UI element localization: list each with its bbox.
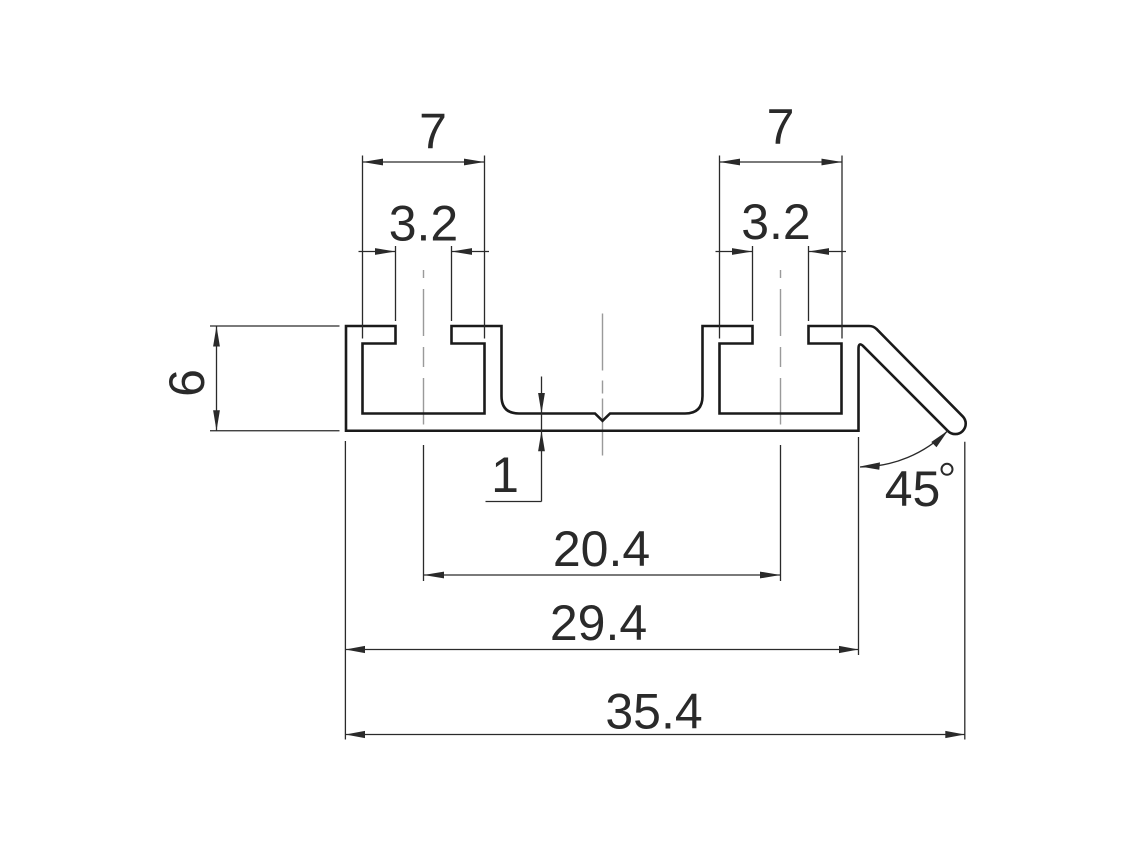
- dimension 35.4: arrow left: [345, 731, 365, 738]
- dimension 3.2 left: dimension line left tail: [359, 251, 396, 253]
- dimension 45 degrees: arrow at vertical line: [860, 462, 880, 469]
- dimension 20.4: arrow left: [424, 572, 445, 579]
- dimension 35.4: dimension line: [345, 734, 964, 736]
- dimension 6: value label: [159, 369, 215, 397]
- dimension 1: arrow up: [538, 431, 545, 452]
- dimension 3.2 left: extension line A: [395, 246, 397, 321]
- dimension 3.2 left: arrow right: [452, 248, 473, 255]
- dimension 3.2 left: extension line B: [451, 246, 453, 321]
- svg-text:3.2: 3.2: [389, 196, 459, 252]
- dimension 7 right: arrow right: [822, 159, 843, 166]
- svg-text:7: 7: [767, 99, 795, 155]
- dimension 3.2 right: extension line B: [808, 246, 810, 321]
- dimension 3.2 right: arrow right: [809, 248, 830, 255]
- dimension 7 left: value label: [419, 104, 447, 160]
- centerline right slot: [780, 270, 782, 425]
- dimension 7 right: extension line B: [841, 156, 843, 339]
- centerline left slot: [423, 270, 425, 425]
- dimension 3.2 right: value label: [741, 194, 811, 250]
- svg-text:45: 45: [885, 461, 941, 517]
- dimension 20.4: extension line left: [423, 445, 425, 581]
- dimension 7 left: arrow right: [464, 159, 485, 166]
- dimension 20.4: arrow right: [760, 572, 781, 579]
- dimension 6: extension line top: [210, 325, 340, 327]
- dimension 7 left: extension line B: [484, 156, 486, 339]
- dimension 1: dimension line vertical: [541, 377, 543, 502]
- dimension 3.2 right: arrow left: [732, 248, 753, 255]
- dimension 3.2 right: extension line A: [752, 246, 754, 321]
- dimension 45 degrees: value label: [885, 461, 941, 517]
- dimension 29.4: value label: [550, 595, 647, 651]
- dimension 7 left: dimension line: [363, 161, 485, 163]
- dimension 45 degrees: degree symbol: [942, 464, 953, 475]
- dimension 45 degrees: arrow at flange tip: [931, 431, 948, 448]
- svg-text:20.4: 20.4: [553, 521, 650, 577]
- dimension 6: extension line bottom: [210, 430, 340, 432]
- dimension 35.4: arrow right: [945, 731, 965, 738]
- dimension 6: arrow top: [213, 326, 220, 347]
- dimension 7 left: arrow left: [363, 159, 384, 166]
- dimension 29.4: arrow left: [345, 646, 365, 653]
- dimension 6: dimension line: [216, 326, 218, 431]
- svg-text:35.4: 35.4: [605, 684, 702, 740]
- svg-text:3.2: 3.2: [741, 194, 811, 250]
- dimension 3.2 left: dimension line right tail: [452, 251, 490, 253]
- dimension 3.2 left: arrow left: [375, 248, 396, 255]
- svg-text:6: 6: [159, 369, 215, 397]
- dimension 1: leader line: [486, 501, 542, 503]
- dimension 1: value label: [491, 447, 519, 503]
- dimension 29.4: dimension line: [345, 649, 858, 651]
- dimension 7 right: dimension line: [720, 161, 843, 163]
- svg-text:1: 1: [491, 447, 519, 503]
- dimension 3.2 right: dimension line left tail: [716, 251, 753, 253]
- dimension 7 right: value label: [767, 99, 795, 155]
- dimension 7 left: extension line A: [362, 156, 364, 339]
- dimension 29.4: extension line left (shared with 35.4): [344, 441, 346, 740]
- svg-text:29.4: 29.4: [550, 595, 647, 651]
- dimension 20.4: value label: [553, 521, 650, 577]
- dimension 6: arrow bottom: [213, 410, 220, 431]
- dimension 3.2 left: value label: [389, 196, 459, 252]
- svg-text:7: 7: [419, 104, 447, 160]
- dimension 20.4: extension line right: [780, 445, 782, 581]
- dimension 29.4: extension line right: [858, 437, 860, 655]
- dimension 29.4: arrow right: [839, 646, 859, 653]
- dimension 1: arrow down: [538, 393, 545, 414]
- dimension 45 degrees: angle arc: [860, 431, 948, 468]
- dimension 35.4: value label: [605, 684, 702, 740]
- dimension 20.4: dimension line: [424, 574, 781, 576]
- dimension 3.2 right: dimension line right tail: [809, 251, 847, 253]
- dimension 7 right: arrow left: [720, 159, 741, 166]
- dimension 35.4: extension line right at flange tip: [964, 442, 966, 740]
- dimension 7 right: extension line A: [719, 156, 721, 339]
- profile outline: [346, 326, 966, 434]
- centerline profile middle: [602, 314, 604, 457]
